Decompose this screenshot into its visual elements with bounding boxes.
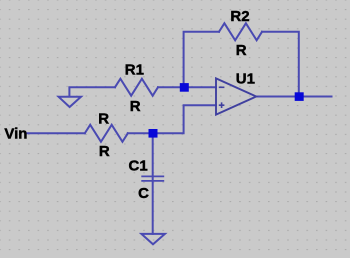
svg-text:R2: R2: [230, 8, 249, 25]
svg-text:R1: R1: [125, 62, 144, 79]
svg-text:R: R: [99, 143, 110, 160]
svg-text:R: R: [130, 98, 141, 115]
svg-text:R: R: [236, 42, 247, 59]
svg-text:C: C: [138, 185, 149, 202]
svg-text:U1: U1: [236, 71, 255, 88]
svg-text:R: R: [98, 111, 109, 128]
svg-text:C1: C1: [129, 157, 148, 174]
svg-text:Vin: Vin: [4, 126, 27, 143]
